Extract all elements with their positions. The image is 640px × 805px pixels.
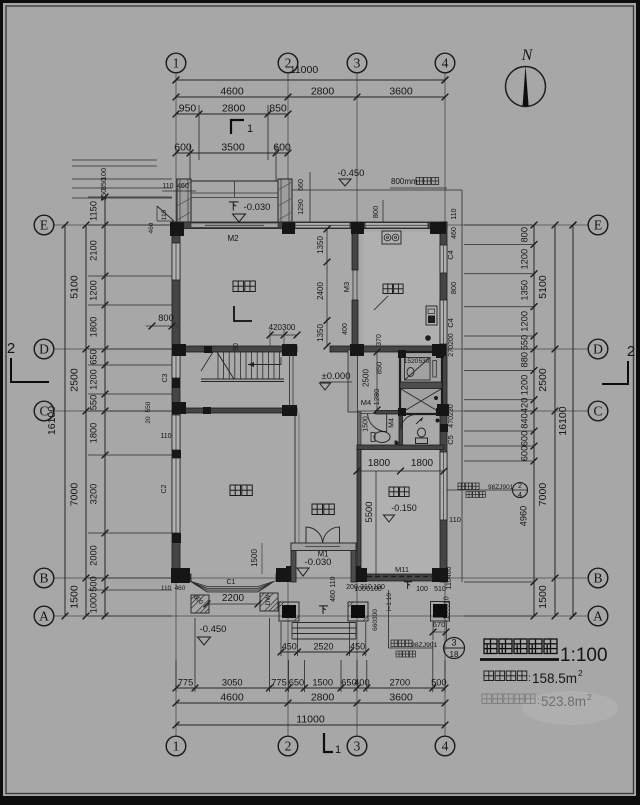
window C4 upper right wall: [440, 245, 447, 273]
svg-text:3600: 3600: [389, 86, 413, 98]
svg-text:-0.450: -0.450: [338, 168, 365, 179]
column 1-C: [172, 402, 186, 414]
grid line axis 3: [356, 73, 358, 736]
svg-text:650: 650: [289, 678, 305, 688]
svg-text:11000: 11000: [290, 64, 319, 76]
svg-text:E: E: [594, 217, 602, 232]
wall hall east upper: [348, 350, 358, 412]
svg-text:4960: 4960: [519, 506, 529, 527]
svg-text:-0.030: -0.030: [244, 202, 271, 213]
svg-text:2200: 2200: [222, 593, 245, 604]
svg-text:i=1:10: i=1:10: [386, 593, 393, 611]
svg-text:3600: 3600: [389, 692, 413, 704]
window C4 lower right wall: [440, 300, 447, 344]
grid bubble D right: [588, 339, 608, 359]
svg-text:DW: DW: [265, 594, 272, 606]
wall exterior left: [172, 222, 180, 582]
grid line axis 1: [175, 73, 177, 736]
door M1 double leaf arcs: [306, 527, 323, 543]
staircase break line: [217, 352, 234, 379]
svg-text:2500: 2500: [69, 368, 81, 392]
bay window C1: [190, 581, 275, 592]
section mark 1 top: [231, 120, 244, 134]
wall bathroom west: [358, 412, 362, 445]
dimension column left detail: [104, 197, 106, 616]
dimension row 4600 2800 3600 top: [176, 96, 445, 98]
kitchen stove: [382, 231, 401, 244]
svg-text:3: 3: [451, 638, 456, 648]
svg-text:100: 100: [373, 584, 385, 591]
svg-text:110: 110: [161, 585, 172, 592]
black dot divider base: [395, 441, 399, 445]
svg-text:110: 110: [162, 183, 173, 190]
svg-text:100: 100: [416, 586, 428, 593]
door M2 opening top: [191, 223, 278, 228]
svg-text:110: 110: [449, 515, 461, 524]
grid bubble 3 top: [347, 53, 367, 73]
svg-text:460: 460: [148, 222, 155, 233]
window C3a left wall: [172, 243, 180, 280]
wall interior row D: [180, 346, 297, 352]
svg-text:1350: 1350: [316, 236, 325, 254]
svg-text:110460: 110460: [446, 566, 453, 589]
svg-text:2520: 2520: [314, 642, 334, 652]
elevator shaft walls: [400, 352, 442, 414]
grid bubble C left: [34, 401, 54, 421]
svg-text:400: 400: [342, 323, 349, 335]
hall west wall: [291, 543, 296, 582]
svg-text:B: B: [593, 570, 602, 585]
porch railing: [191, 180, 278, 182]
svg-text:3200: 3200: [89, 484, 99, 505]
svg-text:1500: 1500: [69, 585, 81, 609]
svg-text:1280: 1280: [372, 389, 381, 406]
dimension column 5100 2500 7000 1500 right: [554, 225, 556, 616]
svg-text:1150: 1150: [89, 201, 99, 221]
apron line top right: [292, 189, 462, 191]
svg-text:800: 800: [449, 282, 458, 295]
grid bubble A right: [588, 606, 608, 626]
column bay east: [276, 568, 290, 582]
window C3 left wall: [172, 354, 180, 378]
svg-text:A: A: [593, 608, 603, 623]
garage floor: [362, 450, 440, 574]
column 2-E: [282, 222, 295, 234]
svg-text:1350: 1350: [520, 280, 530, 301]
kitchen leader line: [374, 296, 388, 310]
grid bubble 1 bottom: [166, 736, 186, 756]
room label dining 餐厅: [233, 281, 244, 292]
svg-text:5500: 5500: [364, 501, 375, 522]
shaft black dot: [434, 396, 438, 400]
area line 1 本层面积: [484, 671, 494, 681]
svg-text:N: N: [521, 47, 534, 64]
svg-text:775: 775: [271, 678, 287, 688]
garage door M11 dashed: [367, 576, 433, 578]
svg-text:500: 500: [431, 678, 447, 688]
svg-text:1500: 1500: [312, 678, 333, 688]
svg-text:775: 775: [178, 678, 194, 688]
svg-text:3500: 3500: [221, 142, 245, 154]
extension lines top: [198, 105, 200, 160]
wall bathroom bottom: [357, 445, 444, 450]
svg-text:1500: 1500: [537, 585, 549, 609]
column 4-E: [430, 222, 446, 234]
column right mid: [440, 424, 448, 432]
grid bubble D left: [34, 339, 54, 359]
svg-text:850: 850: [269, 103, 287, 115]
svg-text:523.8m: 523.8m: [541, 694, 586, 709]
svg-text:800: 800: [158, 313, 174, 323]
column 1-D: [172, 344, 186, 356]
svg-text:550: 550: [520, 335, 530, 351]
bay pillar east hatched: [260, 593, 278, 611]
bay dim 2200: [207, 603, 258, 605]
svg-text:2500: 2500: [362, 369, 371, 387]
svg-text:C4: C4: [446, 250, 455, 260]
svg-text:4600: 4600: [220, 692, 244, 704]
column garage door east: [432, 568, 448, 582]
svg-text:98ZJ901: 98ZJ901: [411, 642, 438, 649]
grid bubble C right: [588, 401, 608, 421]
wall bathroom divider: [399, 413, 403, 445]
column hall west pier: [286, 566, 296, 582]
wall interior row C stairs: [180, 408, 297, 413]
wall bottom living west segment: [172, 574, 191, 581]
door M1 frame band: [291, 543, 356, 551]
svg-text:400: 400: [354, 678, 370, 688]
svg-text:850: 850: [375, 362, 384, 375]
svg-text:600: 600: [520, 446, 530, 462]
svg-text:4600: 4600: [220, 86, 244, 98]
svg-text:460: 460: [330, 590, 337, 602]
svg-text:2500: 2500: [537, 368, 549, 392]
porch level mark xia -0.030: [229, 202, 239, 211]
extension lines steps dim: [280, 622, 282, 656]
svg-text:660: 660: [298, 179, 305, 191]
svg-text:650: 650: [89, 349, 99, 365]
svg-text::: :: [537, 696, 540, 707]
svg-text:M2: M2: [227, 234, 239, 243]
svg-text:460: 460: [451, 227, 458, 239]
apron note 98ZJ901 bottom: [391, 640, 398, 647]
column left mid 0: [172, 378, 180, 388]
staircase bottom edge: [201, 378, 284, 380]
svg-text:1520: 1520: [404, 358, 419, 365]
dimension column right detail: [533, 225, 535, 616]
hall east wall: [351, 543, 356, 582]
svg-text:-0.450: -0.450: [200, 624, 227, 635]
dimension total 16100 left: [64, 225, 66, 616]
grid line axis 2: [287, 73, 289, 736]
grid bubble E left: [34, 215, 54, 235]
svg-text:M3: M3: [342, 282, 351, 292]
svg-text:D: D: [39, 341, 49, 356]
label xia below door: [319, 606, 328, 614]
grid bubble 4 bottom: [435, 736, 455, 756]
grid bubble 1 top: [166, 53, 186, 73]
dimension column 5100 2500 7000 1500 left: [85, 225, 87, 616]
wall kitchen west axis 3: [352, 228, 358, 270]
svg-text:7000: 7000: [537, 483, 549, 507]
wall exterior right: [440, 222, 447, 582]
bay pillar west hatched: [191, 595, 209, 613]
dimension total 16100 right: [572, 225, 574, 616]
svg-text:840: 840: [520, 413, 530, 429]
column 3-D: [350, 344, 364, 356]
dimension total 11000 bottom: [176, 724, 445, 726]
column garage door west: [352, 568, 367, 582]
apron line right side: [461, 190, 463, 582]
svg-text:1: 1: [335, 744, 341, 756]
black dot right wall: [436, 419, 440, 423]
grid bubble 3 bottom: [347, 736, 367, 756]
svg-text:470230: 470230: [448, 404, 455, 427]
staircase arrow: [248, 364, 281, 366]
area line 2 总建筑面积 faded: [482, 694, 492, 704]
wall bathroom top: [376, 411, 400, 415]
dining vertical dim 1350 2400 1350: [326, 229, 328, 346]
svg-text:370: 370: [376, 334, 383, 346]
grid bubble 4 top: [435, 53, 455, 73]
svg-text:110: 110: [330, 576, 337, 587]
svg-text:1200: 1200: [89, 369, 99, 390]
svg-text:450: 450: [282, 642, 297, 652]
porch column west: [279, 602, 299, 621]
svg-text:2800: 2800: [311, 692, 335, 704]
svg-text:2000: 2000: [89, 545, 99, 566]
room label living 客厅: [230, 485, 241, 496]
svg-text:1:100: 1:100: [560, 645, 608, 666]
svg-text:800: 800: [520, 227, 530, 243]
svg-text:1200: 1200: [89, 280, 99, 301]
svg-text:2800: 2800: [311, 86, 335, 98]
title underline: [480, 658, 559, 661]
svg-text:310: 310: [360, 584, 372, 591]
svg-text:2: 2: [587, 692, 592, 702]
svg-text:1800: 1800: [368, 458, 391, 469]
svg-text:16100: 16100: [557, 406, 569, 435]
column 1-B corner: [171, 568, 190, 583]
bathroom door M4b leaf and arc: [400, 415, 402, 430]
svg-text:450: 450: [350, 642, 365, 652]
svg-text:500: 500: [89, 576, 99, 592]
svg-text:600: 600: [174, 142, 192, 154]
elevator corner blocks: [398, 350, 406, 358]
column 2-C: [282, 405, 297, 416]
window top wall kitchen: [365, 223, 428, 229]
grid line axis B: [54, 577, 588, 579]
apron note 98ZJ901 right: [447, 489, 512, 491]
svg-text:600: 600: [520, 431, 530, 447]
grid bubble 2 bottom: [278, 736, 298, 756]
svg-text:1500: 1500: [250, 549, 259, 567]
svg-text:510: 510: [434, 586, 446, 593]
svg-text:M4: M4: [361, 398, 371, 407]
wall bottom garage segment: [356, 574, 447, 581]
svg-text:1000: 1000: [89, 593, 99, 614]
garage dim 1800 1800: [357, 470, 444, 472]
north arrow compass: [506, 66, 546, 107]
svg-text:2: 2: [7, 340, 15, 357]
svg-text:D: D: [593, 341, 603, 356]
grid line axis C: [54, 410, 588, 412]
detail bubble 2-4: [513, 483, 528, 498]
grid line axis D: [54, 348, 588, 350]
dimension row 950 2800 850 top: [176, 113, 288, 115]
washbasin dot: [394, 440, 397, 443]
elevator machine room inner rect: [405, 358, 431, 381]
kitchen black dot: [425, 335, 431, 341]
room label garage 车库: [389, 487, 399, 497]
svg-text:2800: 2800: [222, 103, 246, 115]
room interior fill: [180, 229, 440, 574]
svg-text:2: 2: [518, 483, 522, 490]
svg-text:1800: 1800: [89, 317, 99, 338]
svg-text:5100: 5100: [69, 275, 81, 299]
svg-text:1: 1: [173, 738, 180, 753]
svg-text:3050: 3050: [222, 678, 243, 688]
svg-text:16100: 16100: [46, 406, 58, 435]
room label hall 过厅: [312, 504, 323, 515]
window top wall dining: [295, 223, 350, 229]
svg-text:98ZJ901: 98ZJ901: [488, 484, 514, 491]
svg-text:A: A: [39, 608, 49, 623]
svg-text:1800: 1800: [411, 458, 434, 469]
wall hall east below C: [294, 413, 296, 543]
svg-text:1800: 1800: [89, 423, 99, 444]
dimension row 450 2520 450 steps: [281, 651, 366, 653]
svg-text:C1: C1: [227, 579, 236, 586]
column hall east pier: [351, 566, 361, 582]
bathroom door M4a leaf and arc: [386, 414, 388, 432]
porch pillar west: [177, 179, 191, 222]
svg-text:2: 2: [578, 668, 583, 678]
svg-text:C5: C5: [446, 435, 455, 445]
column 1-E: [170, 222, 184, 236]
svg-text:158.5m: 158.5m: [532, 671, 577, 686]
svg-text:4: 4: [442, 738, 449, 753]
svg-text:1200: 1200: [520, 249, 530, 270]
grid line axis E: [54, 224, 588, 226]
scupper mark left of porch: [157, 206, 174, 221]
porch column east: [348, 602, 368, 621]
toilet: [374, 432, 390, 443]
grid bubble A left: [34, 606, 54, 626]
svg-text:1200: 1200: [520, 311, 530, 332]
svg-text:C: C: [593, 403, 602, 418]
svg-text:C4: C4: [446, 318, 455, 328]
wall exterior top: [172, 222, 447, 229]
column left mid 2: [172, 533, 181, 543]
svg-text:2400: 2400: [316, 282, 325, 300]
grid line axis 4: [444, 73, 446, 736]
elevator cross lower: [401, 389, 441, 413]
extension comb lines right: [464, 224, 534, 226]
dim 800 above kitchen: [382, 200, 384, 222]
urinal fixture: [418, 428, 426, 437]
svg-text:1: 1: [247, 123, 253, 135]
window C2 left wall: [172, 458, 180, 533]
svg-text:530: 530: [419, 358, 430, 365]
door swing indicator arrow: [416, 418, 423, 425]
svg-text:880: 880: [520, 352, 530, 368]
extension lines bottom detail: [175, 660, 177, 692]
svg-text:350: 350: [99, 189, 108, 202]
svg-text:M4: M4: [389, 418, 396, 428]
section mark 1 bottom: [324, 733, 333, 752]
elevator shaft divider: [400, 382, 442, 389]
svg-text:270200: 270200: [448, 333, 455, 356]
svg-text:1200: 1200: [520, 375, 530, 396]
svg-text:11000: 11000: [296, 714, 325, 726]
svg-text:3: 3: [354, 55, 361, 70]
dimension row 600 3500 600 top: [176, 152, 288, 154]
svg-text:350: 350: [99, 178, 108, 191]
svg-text:90: 90: [233, 343, 240, 351]
grid bubble 2 top: [278, 53, 298, 73]
svg-text:420300: 420300: [269, 323, 296, 332]
svg-text:18: 18: [450, 650, 459, 659]
svg-text:1: 1: [173, 55, 180, 70]
wall garage west: [357, 447, 361, 574]
dimension row 4600 2800 3600 bottom: [176, 702, 445, 704]
porch pillar east: [278, 179, 292, 222]
svg-text:3: 3: [354, 738, 361, 753]
column 4-C: [437, 404, 449, 416]
svg-text:2700: 2700: [389, 678, 410, 688]
svg-text:800mm: 800mm: [391, 177, 418, 186]
column left mid 1: [172, 450, 181, 458]
svg-text:660300: 660300: [372, 609, 379, 631]
svg-text:950: 950: [179, 103, 197, 115]
svg-text:670: 670: [433, 620, 446, 629]
svg-text:460: 460: [175, 585, 186, 592]
dimension detail row bottom: [176, 687, 445, 689]
wall bottom living east segment: [276, 574, 296, 581]
grid bubble E right: [588, 215, 608, 235]
svg-text:E: E: [40, 217, 48, 232]
title 首层平面图: [484, 639, 497, 654]
svg-text:B: B: [39, 570, 48, 585]
svg-text:4: 4: [518, 492, 522, 499]
detail bubble 3-18: [444, 638, 465, 659]
entrance porch steps: [292, 623, 356, 640]
column 4-D: [432, 344, 446, 356]
svg-text:1500: 1500: [363, 416, 370, 432]
extension comb lines left: [88, 196, 172, 198]
svg-text:800: 800: [371, 206, 380, 219]
stair right wall line: [289, 352, 291, 408]
garage slope marks: [404, 582, 412, 589]
watermark light patch: [522, 691, 618, 725]
small dims top-left: [72, 159, 157, 161]
svg-text::: :: [528, 673, 531, 684]
door M3 opening: [352, 270, 354, 300]
svg-text:M11: M11: [395, 565, 409, 574]
column stair-C: [203, 407, 211, 414]
garage dim 5500: [375, 471, 377, 578]
svg-text:2: 2: [627, 343, 635, 360]
column 2-D: [282, 344, 297, 356]
window C2a left wall: [172, 415, 180, 450]
svg-text:1290: 1290: [298, 199, 305, 215]
staircase treads: [218, 352, 280, 379]
room label kitchen 厨房: [383, 284, 393, 294]
svg-text:5100: 5100: [537, 275, 549, 299]
grid line axis A: [54, 615, 588, 617]
kitchen fridge: [426, 306, 437, 325]
